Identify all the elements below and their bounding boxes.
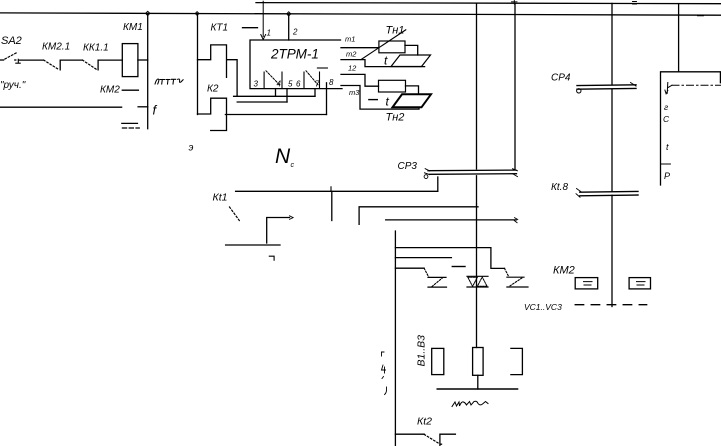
node junction x288.7 on L2 (287, 12, 291, 16)
svg-text:12: 12 (348, 64, 357, 73)
sensor TN2 body (379, 80, 406, 92)
device box right (661, 72, 721, 185)
wire rail x197.5 (197, 14, 199, 115)
device box tick (661, 163, 670, 165)
wire rail x515 (514, 3, 516, 169)
contact KT1 (198, 45, 238, 96)
wire row1 a (19, 59, 44, 61)
wire under box A (234, 95, 315, 97)
svg-text:Тн1: Тн1 (386, 25, 405, 37)
svg-text:3: 3 (254, 80, 259, 89)
device box dashdot (672, 84, 721, 86)
margin mark J (385, 387, 387, 395)
contact Kt2 terminal (440, 434, 456, 446)
wire rail x677 (678, 4, 680, 72)
svg-text:2: 2 (292, 28, 298, 37)
svg-text:т2: т2 (346, 50, 357, 59)
sensor TN2 wire a (341, 74, 379, 86)
wire rail x612 a (611, 3, 613, 84)
wire under box B (237, 101, 287, 103)
svg-text:t: t (386, 95, 390, 109)
svg-text:Кt1: Кt1 (213, 192, 228, 204)
svg-text:5: 5 (288, 80, 293, 89)
svg-text:КК1.1: КК1.1 (83, 43, 109, 54)
wire rail to ground (477, 375, 479, 389)
svg-text:э: э (189, 143, 194, 154)
contact Kt1 blade (230, 207, 240, 221)
device box arrow (665, 83, 672, 94)
svg-text:t: t (384, 54, 388, 68)
sensor TN2 dash (369, 99, 377, 101)
wire coil to rail (138, 59, 148, 61)
svg-text:В1..В3: В1..В3 (416, 335, 428, 367)
sensor TN1 arrow (361, 30, 406, 60)
dashed link (575, 304, 647, 306)
wire rail x612 b (611, 89, 613, 190)
svg-text:т1: т1 (345, 35, 355, 44)
heater V2 (473, 348, 484, 376)
wire pin4 drop (275, 89, 277, 97)
svg-text:КМ2: КМ2 (553, 265, 575, 277)
svg-text:Тн2: Тн2 (386, 112, 405, 124)
svg-text:t: t (666, 142, 669, 152)
node tick x700 on L2 (698, 15, 704, 17)
wire pin8 drop (326, 83, 328, 115)
wire long y191.3 (236, 190, 438, 192)
wire drop x331.8 (331, 191, 333, 220)
gate lead VC3 (505, 268, 510, 277)
sensor TN1 wire a (341, 47, 379, 49)
internal contact 6-7 (304, 72, 320, 89)
wire long y114.5 (225, 114, 326, 116)
svg-text:т3: т3 (349, 88, 360, 97)
wire rail x395.4 (394, 231, 396, 446)
svg-text:с: с (291, 162, 295, 169)
wire pin1 drop (261, 1, 266, 39)
relay CP4 element (577, 85, 636, 89)
node tick x514 on L1 (512, 1, 518, 5)
relay Kt.8 element (580, 191, 638, 195)
svg-text:"руч.": "руч." (0, 80, 26, 91)
wire rail x476.5 upper (476, 3, 478, 169)
wire pin6 drop (286, 89, 288, 102)
contact Kt1 (267, 218, 290, 244)
wire pin7 drop (314, 89, 316, 97)
wire row2 right stub (138, 106, 148, 108)
wire top bus L2 (0, 13, 721, 15)
node junction x197 on L2 (195, 12, 199, 16)
wire Kt2 row (395, 433, 424, 435)
svg-text:КТ1: КТ1 (211, 23, 229, 34)
dash between (452, 266, 465, 268)
ground (437, 388, 517, 390)
contact K2 (198, 98, 227, 130)
svg-text:Кt2: Кt2 (417, 416, 432, 428)
node marks below KM2 (122, 122, 138, 124)
contact KT1 dash (243, 27, 258, 29)
heater V1 (432, 348, 444, 374)
wire CP3 to row (437, 177, 439, 191)
svg-text:6: 6 (296, 80, 301, 89)
node junction x148 on L2 (146, 11, 150, 15)
scrawl under ground (452, 401, 488, 406)
contact KM2 blade (122, 89, 138, 91)
svg-text:СР3: СР3 (398, 161, 418, 172)
node mark x635 on L1 (633, 2, 637, 5)
wire y219.9 (386, 219, 517, 221)
svg-text:f: f (153, 103, 158, 118)
wire Kt1 lower (226, 244, 280, 246)
device 2TPM-1 box (250, 40, 342, 89)
wire y206.8 (359, 207, 478, 225)
svg-text:г: г (664, 102, 668, 112)
sensor TN2 wire b (341, 86, 419, 110)
internal contact 3-4 (264, 72, 282, 89)
wire pin2 drop (288, 14, 290, 40)
sensor TN1 wire b (341, 60, 425, 67)
wire rail x476.5 mid (476, 176, 478, 348)
svg-text:С: С (663, 114, 670, 124)
wire gate row2 (395, 257, 451, 259)
svg-text:КМ1: КМ1 (123, 22, 143, 33)
wire row2 (0, 106, 122, 108)
wire gate row1 (395, 248, 504, 269)
triac VC2 (467, 276, 488, 287)
svg-text:КМ2.1: КМ2.1 (42, 42, 70, 53)
contact Kt2 blade (424, 434, 439, 443)
contact KK1.1 (83, 60, 98, 70)
gate lead VC1 (424, 268, 429, 277)
sensor TN2 link (406, 86, 419, 94)
contact KM2 left box (575, 278, 598, 289)
sensor TN1 body (379, 41, 405, 53)
wire rail x612 c (611, 195, 613, 306)
hook below Kt1 (269, 256, 274, 260)
sensor TN1 thermo parallelogram (391, 55, 431, 67)
triac VC1 (428, 277, 447, 287)
svg-text:N: N (275, 145, 291, 168)
sensor TN2 thermo parallelogram (393, 94, 432, 107)
relay CP3 element (428, 170, 517, 174)
margin mark r (382, 352, 385, 356)
wire rail x148 (147, 13, 149, 128)
switch SA2 (0, 59, 4, 61)
coil KM1 (122, 44, 138, 77)
margin mark 4 (382, 365, 386, 379)
svg-text:КМ2: КМ2 (100, 85, 120, 96)
sensor TN1 link (405, 45, 418, 55)
svg-text:1: 1 (267, 29, 271, 38)
svg-text:К2: К2 (207, 84, 219, 95)
wire gate row3 (395, 267, 424, 269)
svg-text:Р: Р (664, 171, 670, 181)
contact KM2 right box (629, 278, 650, 289)
svg-text:8: 8 (329, 78, 334, 87)
svg-text:SA2: SA2 (1, 35, 22, 47)
svg-text:2ТРМ-1: 2ТРМ-1 (270, 47, 319, 62)
svg-text:СР4: СР4 (551, 73, 571, 84)
node tick x476.5 y206.8 (476, 204, 478, 207)
contact KM2.1 (44, 60, 60, 70)
heater V3 (511, 348, 523, 374)
wire top bus L1 (256, 3, 721, 4)
svg-text:Кt.8: Кt.8 (551, 182, 568, 193)
label scrawl right of rail (155, 79, 183, 84)
svg-text:VС1..VС3: VС1..VС3 (524, 302, 562, 312)
node tick x331 (330, 187, 332, 192)
triac VC3 (507, 277, 528, 287)
